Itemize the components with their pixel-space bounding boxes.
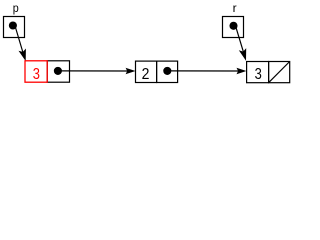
- dot in box p: [9, 21, 17, 29]
- node 1 dot: [54, 67, 62, 75]
- node 2 data cell: [136, 61, 157, 82]
- pointer box p: [4, 17, 25, 38]
- node 1 pointer cell: [47, 61, 69, 82]
- dot in box r: [229, 22, 237, 30]
- svg-text:3: 3: [255, 66, 262, 83]
- wire: arrow from node 1 to node 2: [58, 68, 136, 74]
- svg-text:r: r: [233, 1, 237, 15]
- wire: arrow from p to node 1: [16, 28, 26, 62]
- wire: arrow from node 2 to node 3: [167, 68, 246, 74]
- svg-text:3: 3: [33, 66, 40, 83]
- null slash in node 3 pointer cell: [269, 62, 289, 82]
- svg-text:p: p: [13, 1, 19, 15]
- svg-text:2: 2: [142, 66, 150, 83]
- node 2 dot: [163, 67, 171, 75]
- wire: arrow from r to node 3: [236, 28, 246, 61]
- node 3 pointer cell: [269, 62, 290, 83]
- pointer box r: [223, 17, 244, 38]
- node 1 data cell (red): [25, 61, 47, 82]
- node 2 pointer cell: [157, 61, 178, 82]
- node 3 data cell: [247, 62, 269, 83]
